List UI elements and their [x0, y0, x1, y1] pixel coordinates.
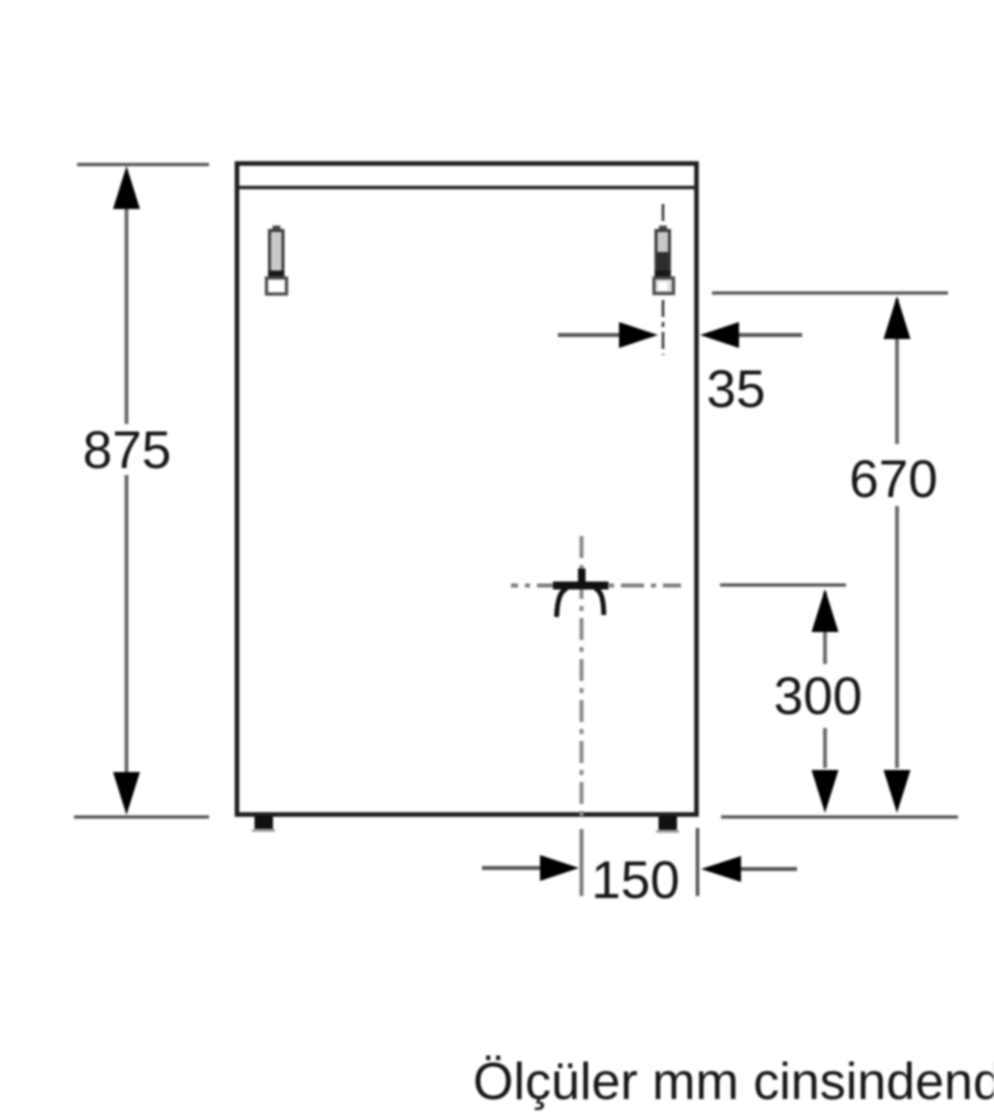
875 dimension extension line bottom [74, 815, 209, 818]
svg-text:875: 875 [83, 421, 171, 480]
875 arrowhead down [113, 772, 140, 815]
svg-text:35: 35 [707, 360, 766, 419]
gas connection symbol [553, 569, 609, 618]
gas connection centerline tick below cabinet [580, 829, 584, 896]
cabinet outline [237, 164, 697, 815]
cabinet top strip line [236, 186, 697, 189]
shared bottom extension line [721, 815, 958, 818]
svg-text:300: 300 [774, 667, 862, 726]
left screw [267, 226, 287, 295]
gas connection centerline horizontal [511, 584, 681, 588]
300 dimension line [823, 592, 827, 664]
300 arrowhead down [812, 770, 839, 813]
150 dimension right arrow [701, 856, 741, 882]
svg-text:Ölçüler mm cinsindendir: Ölçüler mm cinsindendir [473, 1053, 994, 1111]
right screw centerline [662, 204, 665, 355]
svg-text:150: 150 [591, 851, 679, 910]
35 dimension left arrow [558, 333, 622, 337]
35 dimension right arrow [700, 322, 739, 348]
150 dimension left arrow [482, 866, 542, 870]
670 arrowhead up [884, 296, 911, 339]
670 dimension extension line top [712, 291, 948, 294]
875 dimension line [125, 200, 129, 424]
right screw [654, 226, 674, 294]
300 dimension extension line top [720, 583, 846, 586]
right foot [659, 816, 678, 830]
670 dimension line [895, 299, 899, 444]
300 arrowhead up [812, 589, 839, 632]
150 dimension right tick [696, 828, 700, 896]
670 arrowhead down [884, 770, 911, 813]
875 arrowhead up [113, 166, 140, 209]
gas connection centerline vertical [580, 536, 584, 820]
875 dimension extension line top [77, 163, 209, 166]
left foot [255, 816, 274, 829]
svg-text:670: 670 [849, 450, 937, 509]
